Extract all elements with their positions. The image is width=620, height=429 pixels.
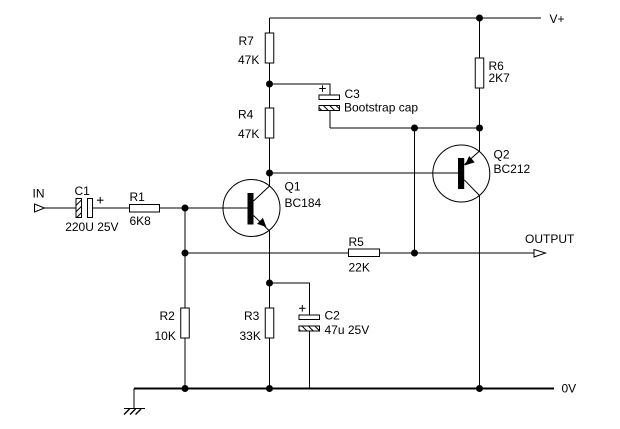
svg-text:Q1: Q1 xyxy=(285,180,301,194)
svg-text:47K: 47K xyxy=(238,53,259,67)
svg-text:Bootstrap cap: Bootstrap cap xyxy=(344,101,418,115)
wire ground stem xyxy=(133,389,135,409)
wire 0V rail xyxy=(134,388,554,390)
capacitor C2 xyxy=(299,315,320,331)
node B: R4/Q1 collector/Q2 base junction xyxy=(266,170,273,177)
transistor Q2 xyxy=(433,145,490,202)
svg-text:OUTPUT: OUTPUT xyxy=(525,232,575,246)
wire bootstrap line (C3 to R6/Q2 emitter) xyxy=(330,127,480,129)
node R3 at 0V rail xyxy=(266,385,273,392)
svg-text:R1: R1 xyxy=(130,190,146,204)
node V+ / R6 junction xyxy=(476,15,483,22)
node R2 at 0V rail xyxy=(182,385,189,392)
resistor R7 xyxy=(265,33,274,63)
svg-text:R5: R5 xyxy=(349,235,365,249)
wire Q1 base node down to R2/R5 column xyxy=(184,208,186,389)
svg-text:R4: R4 xyxy=(238,108,254,122)
wire V+ rail xyxy=(270,17,542,19)
wire node B to Q2 base xyxy=(270,172,459,174)
svg-text:47K: 47K xyxy=(238,127,259,141)
node F: R5 right/output branch junction xyxy=(411,250,418,257)
svg-text:R3: R3 xyxy=(244,309,260,323)
node A: R7/R4/C3 junction xyxy=(266,81,273,88)
wire C2 bottom plate down to 0V rail xyxy=(309,331,311,389)
svg-text:IN: IN xyxy=(33,187,45,201)
ground xyxy=(124,409,145,415)
svg-text:C3: C3 xyxy=(345,87,361,101)
wire C3 bottom plate down to bootstrap line xyxy=(329,111,331,129)
node C: Q1 base/R1/R2 junction xyxy=(182,205,189,212)
svg-text:C1: C1 xyxy=(75,184,91,198)
node bootstrap/output branch junction xyxy=(411,125,418,132)
svg-text:R7: R7 xyxy=(239,34,255,48)
polarity + (C1) xyxy=(97,197,104,204)
node R6/Q2 emitter/C3 junction xyxy=(476,125,483,132)
resistor R2 xyxy=(181,308,190,338)
svg-text:2K7: 2K7 xyxy=(489,71,511,85)
svg-text:0V: 0V xyxy=(562,382,577,396)
transistor Q1 xyxy=(223,180,280,237)
svg-text:R2: R2 xyxy=(160,309,176,323)
polarity + (C3) xyxy=(319,85,326,92)
node D: R5 left junction xyxy=(182,250,189,257)
terminal IN arrow xyxy=(35,204,45,212)
wire C1 to Q1 base xyxy=(93,207,249,209)
polarity + (C2) xyxy=(299,305,306,312)
capacitor C1 xyxy=(76,199,93,218)
resistor R6 xyxy=(475,58,484,88)
resistor R3 xyxy=(265,308,274,338)
wire R7/R4 column (V+ down to Q1 collector node) xyxy=(269,18,271,186)
svg-text:33K: 33K xyxy=(240,329,261,343)
svg-text:10K: 10K xyxy=(155,329,176,343)
wire IN arrow to C1 xyxy=(45,207,77,209)
svg-text:Q2: Q2 xyxy=(494,148,510,162)
svg-text:6K8: 6K8 xyxy=(130,214,152,228)
resistor R4 xyxy=(265,108,274,138)
svg-text:47u 25V: 47u 25V xyxy=(325,323,370,337)
wire R6 column (V+ rail down to bootstrap node) xyxy=(479,18,481,152)
svg-text:V+: V+ xyxy=(550,12,565,26)
wire Q1 emitter column down to 0V rail xyxy=(269,231,271,389)
terminal OUTPUT arrow xyxy=(534,250,546,258)
resistor R5 xyxy=(349,249,380,257)
svg-text:BC212: BC212 xyxy=(494,162,531,176)
svg-text:BC184: BC184 xyxy=(285,196,322,210)
wire node A to C3 top plate xyxy=(270,84,331,95)
svg-text:22K: 22K xyxy=(349,261,370,275)
capacitor C3 xyxy=(319,95,340,111)
svg-text:220U 25V: 220U 25V xyxy=(65,220,118,234)
svg-text:C2: C2 xyxy=(325,309,341,323)
wire node E to C2 top plate xyxy=(270,283,310,315)
resistor R1 xyxy=(130,205,160,213)
node E: Q1 emitter/R3/C2 junction xyxy=(266,280,273,287)
wire output branch up to bootstrap line xyxy=(414,128,416,253)
node Q2 collector at 0V rail xyxy=(476,385,483,392)
wire Q2 collector down to 0V rail xyxy=(479,196,481,389)
wire output line (node D through R5 to OUTPUT arrow) xyxy=(185,252,534,254)
